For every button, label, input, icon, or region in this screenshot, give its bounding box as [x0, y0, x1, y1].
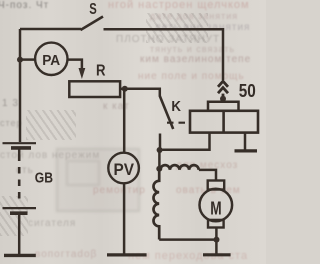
svg-text:K: K — [171, 98, 181, 115]
contact K lever (normally open) — [160, 96, 173, 129]
terminal 50 double-chevron plug arrow — [218, 81, 228, 97]
wire: left rail to ammeter PA — [20, 58, 35, 61]
ground (motor) chassis bar — [203, 253, 231, 256]
wire: contact K fixed side down to node A — [159, 134, 162, 151]
wire: battery to ground — [18, 213, 21, 254]
wire: L1 to motor M top brush — [199, 170, 216, 181]
wire: resistor output junction to contact K moving side — [125, 89, 160, 97]
battery GB intermediate cells (dashed) — [18, 155, 21, 204]
wire: motor bottom brush down to ground — [215, 228, 218, 254]
motor M — [200, 181, 233, 228]
svg-text:GB: GB — [35, 170, 53, 186]
svg-text:R: R — [96, 62, 106, 79]
junction dot on relay pedestal (terminal 50) — [220, 96, 226, 102]
svg-text:50: 50 — [239, 80, 256, 101]
wire: PA to rheostat wiper — [68, 60, 82, 69]
battery GB cell 1 positive plate — [3, 142, 37, 144]
wire: top horizontal from corner to switch S left contact — [20, 28, 81, 31]
node A junction dot — [157, 147, 163, 153]
junction dot at motor bottom — [214, 237, 220, 243]
junction dot at resistor output — [122, 86, 128, 92]
battery GB cell 2 positive plate — [3, 207, 37, 209]
ground (PV) chassis bar — [107, 253, 147, 256]
wire: relay right leg down to ground — [244, 133, 247, 150]
junction dot at field coil tap — [156, 166, 162, 172]
voltmeter PV — [108, 153, 139, 184]
wire: relay left leg down and left to node A — [160, 133, 210, 150]
wire: node A down to field-coil tap — [158, 150, 161, 169]
relay K mechanical link (dashed) — [167, 122, 190, 124]
wire: cell 1 stub — [18, 148, 21, 155]
svg-text:PV: PV — [114, 161, 135, 179]
battery GB cell 1 negative plate — [11, 146, 31, 150]
wire: junction down to voltmeter PV — [123, 89, 126, 153]
wire: PV down to ground — [123, 183, 126, 254]
relay K coil box — [190, 111, 258, 133]
battery GB cell 2 negative plate — [10, 211, 28, 215]
ground (relay) chassis bar — [235, 149, 258, 152]
switch S lever — [81, 17, 104, 31]
junction dot at PA branch on left rail — [17, 57, 23, 63]
resistor R (rheostat body) — [69, 81, 120, 97]
relay K pedestal — [208, 102, 239, 111]
rheostat wiper arrow — [79, 68, 86, 79]
ground (battery) chassis bar — [4, 254, 36, 257]
inductor L1 (horizontal field winding) — [160, 165, 198, 170]
svg-text:M: M — [210, 198, 221, 219]
inductor L2 (vertical series winding) — [154, 169, 160, 240]
svg-text:PA: PA — [42, 52, 60, 69]
wire: left rail from top-left corner down to battery — [19, 29, 22, 142]
svg-text:S: S — [89, 1, 97, 18]
wire: bottom from L2 to motor bottom junction — [159, 238, 216, 241]
ammeter PA — [35, 43, 67, 75]
wire: resistor R to output junction — [120, 88, 125, 91]
wire: top horizontal from switch to right corner, down to terminal 50 — [104, 29, 224, 80]
